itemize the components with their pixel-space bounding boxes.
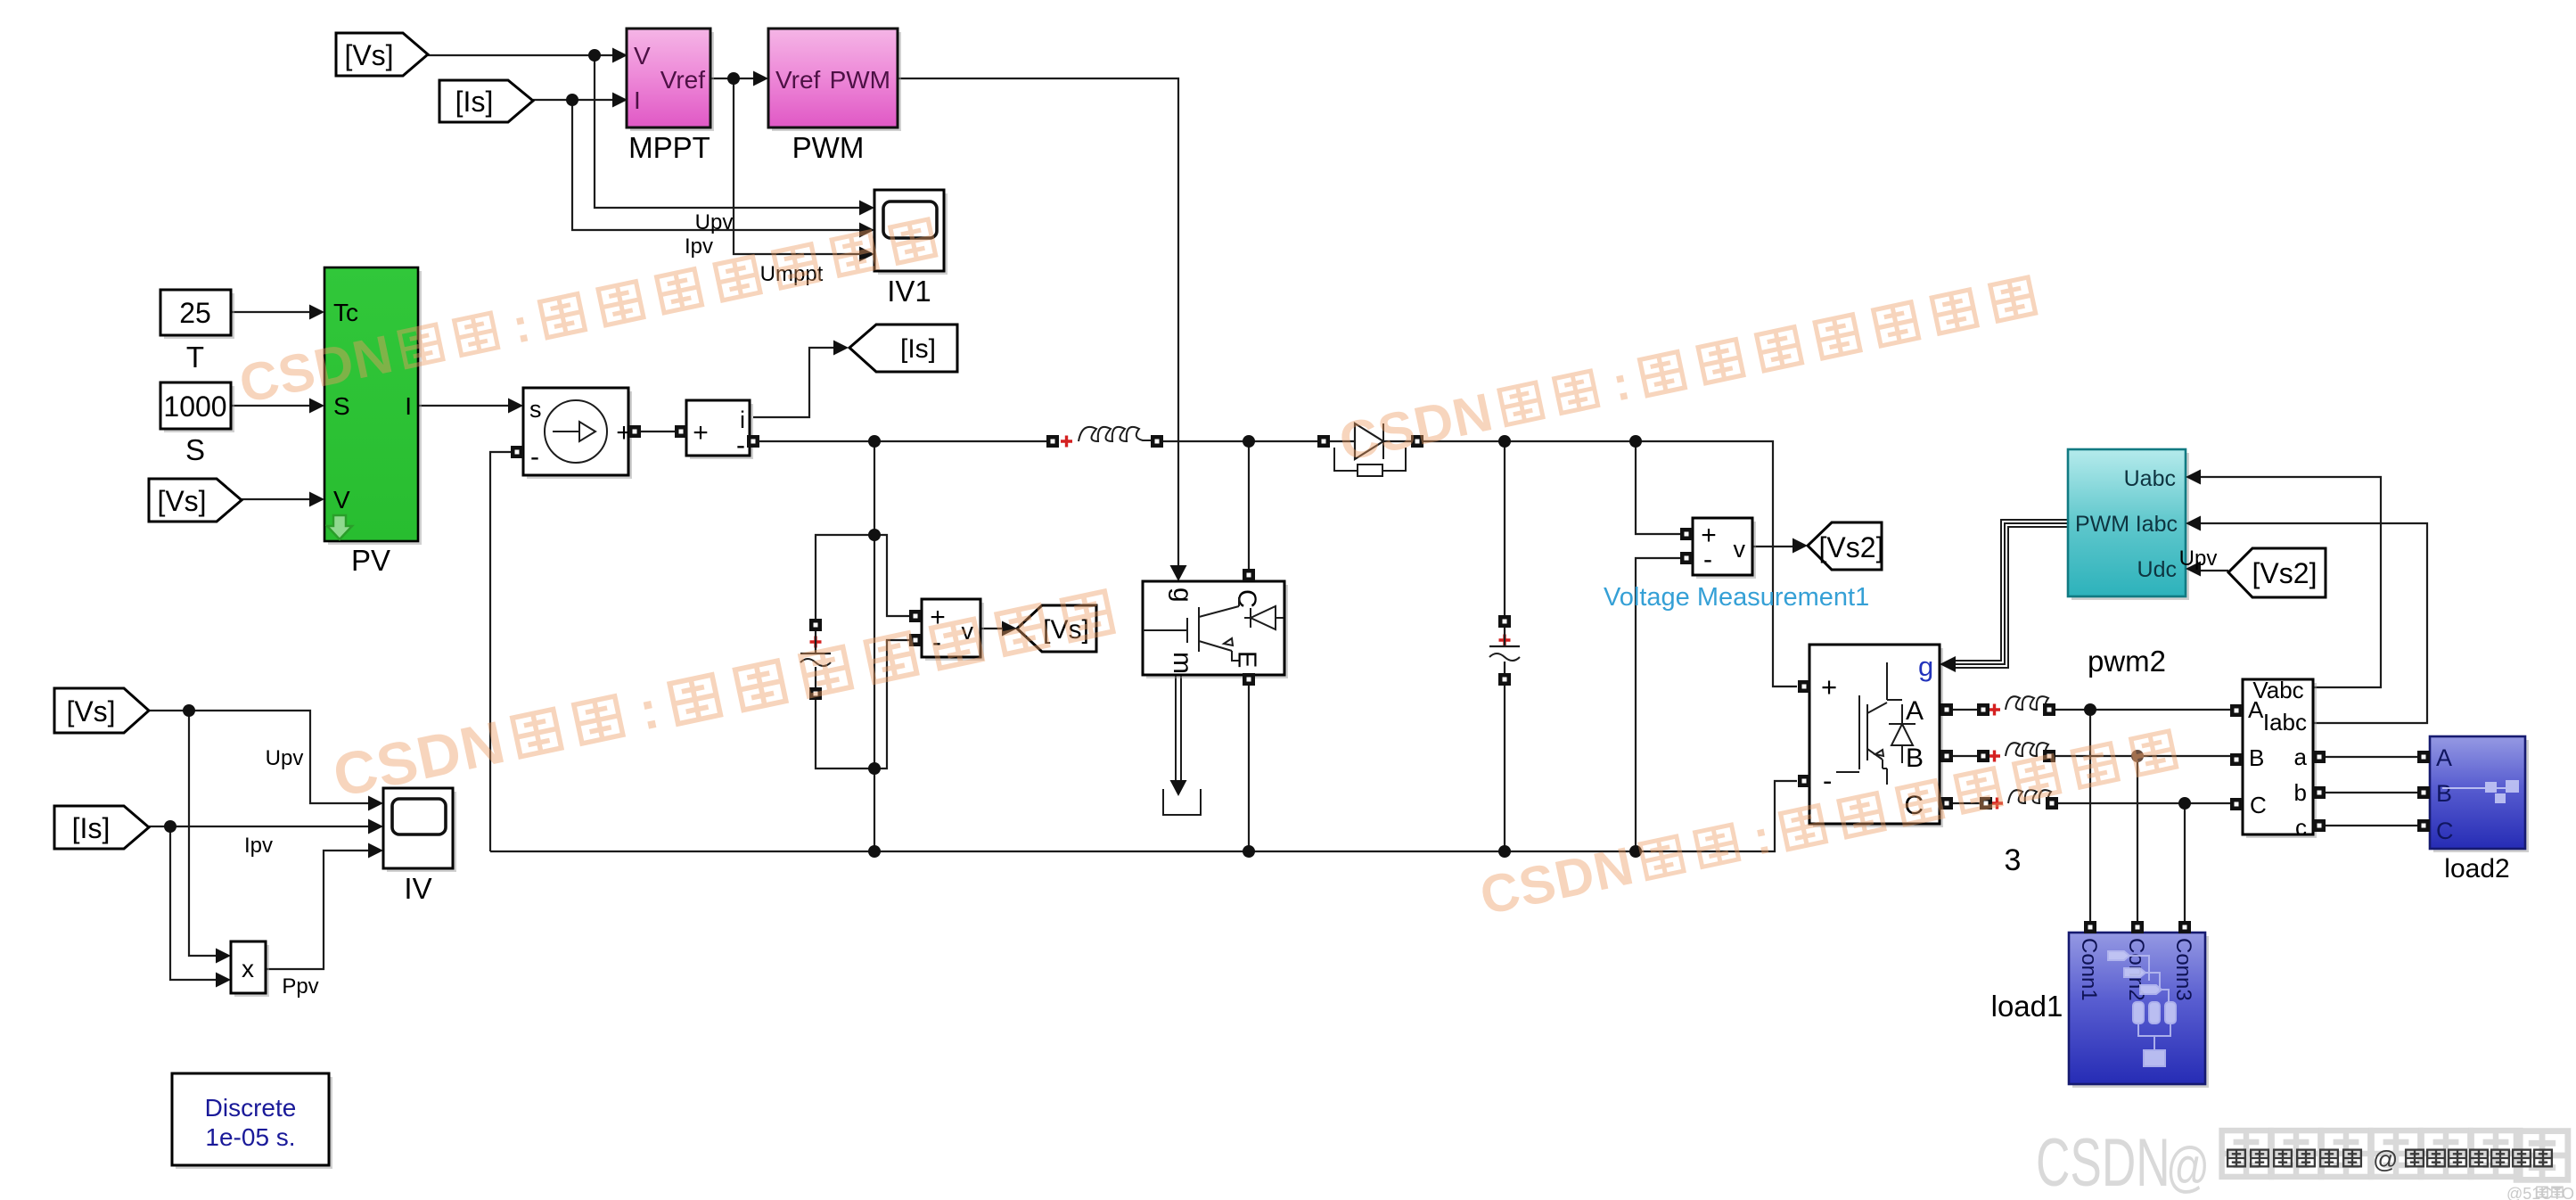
- port squares VI measurement: [2230, 704, 2243, 717]
- svg-text:Iabc: Iabc: [2263, 709, 2307, 736]
- svg-text:v: v: [1734, 536, 1746, 563]
- junction node rail x1688: [1498, 435, 1511, 448]
- svg-text:C: C: [2436, 818, 2454, 844]
- port squares Voltage Measurement1: [1680, 528, 1693, 540]
- wire i out to [Is] goto: [753, 348, 834, 417]
- junction node I line: [566, 94, 578, 106]
- arrow m terminator: [1170, 780, 1187, 796]
- wire bridge C to branch C: [1952, 802, 1981, 804]
- capacitor C1: [800, 631, 831, 687]
- junction node rail x1835: [1629, 435, 1642, 448]
- svg-text:[Vs2]: [Vs2]: [2252, 557, 2318, 589]
- wire VI Vabc out to pwm2 Uabc: [2200, 477, 2381, 687]
- wire bridge A to branch A: [1952, 709, 1978, 711]
- svg-text:1000: 1000: [163, 390, 226, 423]
- block voltage measurement [Vs]: [922, 599, 984, 661]
- junction node phase B: [2131, 750, 2144, 762]
- junction node bottom rail x1688: [1498, 845, 1511, 858]
- arrow into MPPT I: [612, 93, 628, 108]
- goto tag [Is] top-left: [439, 80, 533, 122]
- block Voltage Measurement1: [1693, 518, 1756, 579]
- svg-text:g: g: [1168, 588, 1197, 603]
- junction node bottom rail x981: [868, 845, 881, 858]
- svg-text:[Is]: [Is]: [900, 334, 936, 364]
- svg-text:@: @: [2373, 1146, 2398, 1173]
- constant 1000: [160, 382, 234, 432]
- IGBT inner diode: [1244, 606, 1284, 629]
- block PV array: [324, 267, 422, 545]
- wire [Is] bottom to product in2: [170, 826, 217, 980]
- svg-text:Ppv: Ppv: [282, 974, 318, 999]
- svg-text:load1: load1: [1991, 990, 2063, 1023]
- junction node Vref line: [727, 72, 740, 85]
- watermark bottom right gray CSDN: [2036, 1125, 2568, 1200]
- wire product out Ppv to IV in3: [266, 851, 369, 969]
- constant 25: [160, 290, 234, 339]
- junction node bottom rail x1401: [1243, 845, 1255, 858]
- svg-text:PWM: PWM: [792, 131, 865, 164]
- svg-text:-: -: [736, 431, 745, 460]
- svg-text:Uabc: Uabc: [2124, 466, 2176, 491]
- junction node phase A: [2084, 703, 2096, 716]
- svg-text:1e-05 s.: 1e-05 s.: [205, 1123, 295, 1151]
- wire source plus to i plus: [635, 431, 681, 432]
- wire [Vs] bottom to IV in1: [149, 711, 369, 803]
- wire VM1 v out to [Vs2] goto: [1752, 546, 1793, 547]
- goto tag [Is] bottom-left: [54, 806, 149, 849]
- svg-text:g: g: [1918, 651, 1933, 682]
- wire pwm2 PWM bus to bridge g: [1954, 520, 2068, 668]
- diode D1: [1330, 423, 1411, 476]
- svg-text:Ipv: Ipv: [244, 834, 273, 858]
- wire IGBT m output double line: [1176, 675, 1181, 781]
- arrows into PV: [309, 305, 324, 320]
- svg-text:B: B: [2436, 780, 2452, 807]
- arrow into goto [Vs2]: [1793, 538, 1808, 554]
- svg-text:-: -: [1703, 545, 1712, 574]
- svg-text:[Vs2]: [Vs2]: [1819, 531, 1884, 563]
- wire const 25 to PV Tc: [231, 311, 310, 313]
- wire bridge B to branch B: [1952, 755, 1978, 757]
- inductor L1: [1061, 427, 1152, 448]
- port squares load1: [2084, 921, 2096, 933]
- svg-text:A: A: [2248, 696, 2264, 723]
- svg-text:Discrete: Discrete: [205, 1094, 297, 1122]
- wire top rail diode to bridge plus: [1417, 441, 1797, 686]
- svg-text:PWM: PWM: [830, 66, 890, 94]
- diode snubber: [1334, 448, 1406, 471]
- junction node bottom rail x1835: [1629, 845, 1642, 858]
- svg-text:a: a: [2294, 744, 2308, 770]
- arrows into IV1: [859, 201, 874, 216]
- scope IV: [383, 788, 456, 872]
- wire cap2 branch top: [1504, 441, 1505, 615]
- wire [Is] bottom to IV in2: [149, 826, 369, 827]
- wire VM v out to [Vs] goto: [980, 628, 1003, 629]
- svg-text:[Is]: [Is]: [72, 812, 111, 844]
- PV arrow icon: [327, 515, 352, 539]
- wire VM1 plus tap: [1636, 441, 1681, 534]
- svg-text:B: B: [2249, 744, 2264, 771]
- wire bottom rail: [490, 781, 1797, 851]
- wire phase A down to load1 Conn1: [2089, 710, 2091, 922]
- svg-text:Conn1: Conn1: [2077, 938, 2101, 1001]
- junction node rail x981: [868, 435, 881, 448]
- wire branch A to VI A: [2055, 709, 2231, 711]
- block load2: [2430, 736, 2529, 852]
- junction node V line: [588, 49, 601, 62]
- svg-text:V: V: [634, 42, 651, 70]
- svg-text:PWM: PWM: [2075, 512, 2129, 537]
- svg-text:Upv: Upv: [266, 746, 304, 770]
- wire Umppt branch to IV1 in3: [734, 78, 860, 254]
- arrow into goto [Vs]: [1002, 621, 1017, 637]
- arrow into goto [Is]: [833, 341, 849, 356]
- port squares VM [Vs]: [909, 610, 922, 622]
- svg-text:Ipv: Ipv: [685, 234, 713, 259]
- wire VM [Vs] plus: [874, 535, 910, 616]
- svg-text:s: s: [529, 396, 542, 423]
- svg-text:A: A: [1906, 696, 1924, 726]
- goto tag [Vs] bottom-left: [54, 688, 149, 733]
- wire [Vs] to PV V: [242, 498, 310, 500]
- port squares inductor L1: [1046, 435, 1059, 448]
- block MPPT U1: [627, 29, 714, 131]
- watermark diagonal 2: [1334, 267, 2039, 472]
- arrow into MPPT V: [612, 48, 628, 63]
- wire cap1 branch bottom: [816, 700, 874, 768]
- arrowheads signal inputs: [216, 48, 2201, 988]
- svg-text:V: V: [333, 486, 350, 514]
- port squares diode: [1317, 435, 1330, 448]
- svg-text:[Vs]: [Vs]: [157, 485, 206, 517]
- goto tag [Vs] after VM: [1017, 605, 1096, 652]
- svg-text:Upv: Upv: [2179, 547, 2218, 571]
- svg-text:S: S: [185, 433, 205, 466]
- wire cap2 branch bottom: [1504, 686, 1505, 851]
- RLC branch B: [1989, 743, 2059, 761]
- port squares cap1: [809, 619, 822, 631]
- block product Ppv: [231, 941, 269, 997]
- junction node phase C: [2178, 797, 2191, 810]
- svg-text:I: I: [634, 86, 641, 114]
- load2 inner icon: [2442, 780, 2519, 803]
- port squares cap2: [1498, 615, 1511, 628]
- block controlled current source: [523, 388, 632, 479]
- svg-text:Iabc: Iabc: [2136, 512, 2178, 537]
- wire branch C to VI C: [2057, 802, 2231, 804]
- svg-text:MPPT: MPPT: [628, 131, 710, 164]
- block PWM U2: [768, 29, 901, 131]
- port squares bridge: [1798, 680, 1810, 693]
- RLC branch C: [1991, 790, 2062, 809]
- wire const 1000 to PV S: [231, 405, 310, 407]
- goto tag [Is] from current measurement: [849, 325, 957, 372]
- bridge IGBT diode icon: [1836, 662, 1887, 785]
- wire phase C down to load1 Conn3: [2184, 803, 2186, 922]
- svg-text:IV: IV: [404, 872, 431, 905]
- svg-text:C: C: [2250, 792, 2267, 818]
- block universal bridge inverter: [1809, 645, 1943, 827]
- wire top rail i to inductor: [753, 440, 1053, 442]
- svg-text:Tc: Tc: [333, 299, 358, 326]
- port squares current source: [511, 446, 523, 458]
- wire vertical node x981: [874, 441, 875, 851]
- arrows into pwm2: [2186, 470, 2201, 485]
- svg-text:pwm2: pwm2: [2088, 645, 2166, 678]
- wire VM [Vs] minus: [874, 640, 910, 768]
- wire phase B down to load1 Conn2: [2137, 756, 2138, 922]
- wire MPPT Vref to PWM: [710, 78, 754, 79]
- port squares IGBT C and E: [1243, 569, 1255, 581]
- svg-text:x: x: [242, 955, 254, 982]
- wire top rail inductor to diode: [1157, 440, 1324, 442]
- svg-text:-: -: [1823, 765, 1832, 796]
- goto tag [Vs2] after Voltage Measurement1: [1808, 522, 1883, 570]
- load1 inner icon: [2108, 951, 2176, 1066]
- wire IGBT emitter to bottom rail: [1248, 685, 1250, 851]
- svg-text:B: B: [1906, 744, 1924, 773]
- svg-text:[Vs]: [Vs]: [344, 39, 393, 71]
- arrow into PWM Vref: [753, 71, 768, 86]
- wire cap1 branch top: [816, 535, 874, 619]
- svg-text:C: C: [1232, 589, 1260, 608]
- RLC branch A: [1989, 696, 2059, 715]
- goto tag [Vs] into PV: [149, 479, 242, 522]
- svg-text:-: -: [530, 442, 539, 472]
- svg-text:IV1: IV1: [887, 275, 931, 308]
- svg-text:[Vs]: [Vs]: [66, 695, 115, 727]
- svg-text:3: 3: [2005, 843, 2022, 877]
- arrow into IGBT g: [1170, 565, 1187, 581]
- wire VI b to load2 B: [2319, 792, 2417, 793]
- wire [Is] to MPPT I: [533, 99, 613, 101]
- watermark diagonal 3: [328, 580, 1117, 810]
- svg-text:m: m: [1168, 652, 1197, 674]
- junction node cap bottom: [868, 762, 881, 775]
- svg-text:+: +: [1821, 671, 1837, 703]
- wire branch B to VI B: [2055, 755, 2231, 757]
- scope IV1: [874, 190, 948, 275]
- arrow into bridge g: [1940, 656, 1956, 672]
- watermark bottom right dark juejin: [2227, 1146, 2552, 1173]
- svg-text:Voltage Measurement1: Voltage Measurement1: [1604, 583, 1869, 612]
- arrows into product: [216, 949, 231, 964]
- svg-text:T: T: [186, 341, 204, 374]
- watermark corner 51CTO: [2506, 1185, 2574, 1200]
- wire VI Iabc out to pwm2 Iabc: [2200, 523, 2427, 723]
- svg-text:Conn3: Conn3: [2171, 938, 2195, 1001]
- wire VI a to load2 A: [2319, 756, 2417, 758]
- wire PWM out to IGBT gate: [898, 78, 1178, 565]
- svg-text:CSDN: CSDN: [2036, 1125, 2170, 1200]
- svg-text:PV: PV: [351, 544, 390, 577]
- svg-text:c: c: [2295, 814, 2307, 841]
- junction node [Vs] bottom: [183, 704, 195, 717]
- wire source minus to bottom rail: [490, 452, 512, 851]
- block powergui Discrete: [172, 1073, 332, 1169]
- svg-text:Udc: Udc: [2137, 557, 2177, 582]
- block IGBT chopper: [1143, 581, 1288, 678]
- svg-text:I: I: [405, 392, 412, 420]
- block three-phase VI measurement: [2243, 677, 2317, 841]
- watermark diagonal 4: [1475, 720, 2179, 925]
- watermark diagonal 1: [234, 209, 939, 414]
- wire [Vs] to MPPT V: [428, 54, 613, 56]
- junction node [Is] bottom: [164, 820, 176, 833]
- svg-text:25: 25: [179, 297, 211, 329]
- junction node cap top: [868, 529, 881, 541]
- svg-text:+: +: [693, 418, 709, 448]
- wire VM1 minus tap: [1636, 558, 1681, 851]
- goto tag [Vs2] into pwm2 Udc: [2228, 548, 2326, 597]
- svg-text:S: S: [333, 392, 350, 420]
- wire Upv branch to IV1 in1: [595, 55, 860, 208]
- svg-text:E: E: [1232, 651, 1260, 668]
- IGBT inner symbol: [1143, 597, 1239, 661]
- wire VI c to load2 C: [2319, 825, 2417, 826]
- wire [Vs] bottom to product in1: [189, 711, 217, 956]
- svg-text:[Is]: [Is]: [455, 86, 494, 118]
- svg-text:b: b: [2294, 779, 2307, 806]
- svg-text:Vref: Vref: [660, 66, 706, 94]
- port squares RLC branches: [1977, 703, 1989, 716]
- capacitor C2: [1489, 628, 1520, 674]
- block pwm2 controller: [2068, 449, 2189, 600]
- block load1: [2069, 933, 2209, 1088]
- block current measurement i: [686, 400, 753, 460]
- wire Ipv branch to IV1 in2: [572, 100, 860, 230]
- svg-text:A: A: [2436, 744, 2452, 771]
- svg-text:load2: load2: [2444, 854, 2509, 884]
- terminator for m: [1163, 789, 1201, 815]
- port squares load2: [2417, 751, 2430, 763]
- wire IGBT collector to rail: [1248, 441, 1250, 569]
- arrows into IV: [368, 796, 383, 811]
- svg-text:@: @: [2166, 1136, 2210, 1197]
- wire PV I to source s: [418, 405, 509, 407]
- goto tag [Vs] top-left: [336, 33, 428, 76]
- svg-text:i: i: [740, 407, 745, 433]
- svg-text:Vref: Vref: [775, 66, 821, 94]
- port squares current measurement: [675, 425, 687, 438]
- arrow into source s: [508, 399, 523, 414]
- wire [Vs2] from tag to pwm2 Udc: [2200, 570, 2228, 571]
- junction node rail x1401: [1243, 435, 1255, 448]
- svg-text:Upv: Upv: [695, 210, 734, 234]
